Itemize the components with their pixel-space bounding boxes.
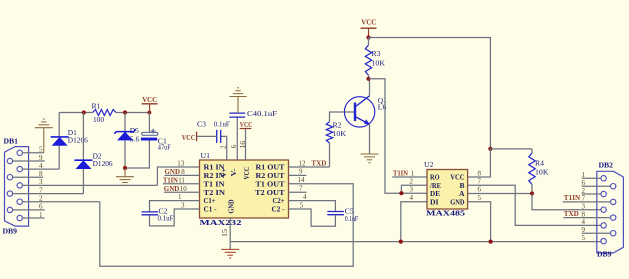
svg-text:15: 15: [222, 228, 229, 237]
op-amp U2 MAX485 body: [427, 170, 468, 210]
resistor R4: [529, 153, 535, 185]
svg-text:5: 5: [300, 201, 304, 209]
DB1 pin 1 circle: [17, 215, 22, 220]
svg-text:C3: C3: [197, 120, 207, 128]
svg-text:GND: GND: [164, 185, 180, 193]
svg-text:R4: R4: [535, 160, 545, 168]
junction dot F: [366, 77, 370, 81]
junction dot L: [489, 240, 493, 244]
svg-text:T1IN: T1IN: [564, 194, 580, 202]
resistor R3: [365, 45, 371, 75]
wire U1 pin7: [289, 191, 307, 193]
wire U1 pin3 C1-: [150, 209, 200, 226]
svg-text:100: 100: [93, 116, 105, 124]
wire D5 bottom: [124, 140, 126, 168]
svg-text:3: 3: [181, 201, 185, 209]
svg-text:GND: GND: [228, 200, 236, 214]
svg-text:MAX485: MAX485: [426, 209, 465, 218]
wire D1 top: [58, 113, 60, 138]
svg-text:D5: D5: [130, 127, 140, 135]
resistor R1: [93, 110, 116, 116]
svg-text:GND: GND: [165, 168, 181, 176]
DB1 pin 6 circle: [7, 207, 12, 212]
svg-text:B: B: [460, 182, 465, 190]
svg-text:C2+: C2+: [273, 197, 285, 205]
svg-text:5: 5: [478, 194, 482, 202]
wire U1 pin4 C2+: [289, 201, 336, 212]
svg-text:MAX232: MAX232: [200, 218, 242, 227]
svg-text:2: 2: [410, 178, 414, 186]
connector J-DB1 outline: [5, 147, 29, 227]
svg-text:U2: U2: [424, 161, 434, 169]
svg-text:6: 6: [478, 185, 482, 193]
junction dot G: [488, 147, 492, 151]
svg-text:C1+: C1+: [204, 197, 216, 205]
wire U1 pin16 VCC: [245, 129, 247, 161]
capacitor C4: [229, 112, 245, 114]
svg-text:V+: V+: [220, 168, 228, 177]
wire DB1 pin 4: [22, 168, 59, 170]
DB2 pin 1 circle: [601, 176, 606, 181]
wire VCC to R4: [490, 148, 532, 150]
wire U2 pin5 GND: [468, 202, 491, 242]
DB2 pin 6 circle: [611, 184, 616, 189]
wire DB1 pin 7: [13, 193, 84, 195]
wire D5 top: [124, 113, 126, 132]
DB1 pin 3 circle: [17, 183, 22, 188]
resistor R2: [326, 122, 332, 143]
DB1 pin 4 circle: [17, 166, 22, 171]
svg-text:5: 5: [582, 234, 586, 242]
capacitor C2: [142, 211, 159, 213]
capacitor C3: [216, 130, 218, 143]
svg-text:TXD: TXD: [564, 210, 579, 218]
svg-text:T1 IN: T1 IN: [204, 180, 226, 188]
diode D1: [51, 136, 69, 138]
ground G1 (DB1 pin5): [35, 127, 53, 129]
wire DB2 pin 9: [582, 232, 611, 234]
svg-text:16: 16: [240, 140, 247, 149]
svg-text:1: 1: [178, 193, 182, 201]
svg-text:10: 10: [180, 185, 188, 193]
svg-text:13: 13: [177, 159, 185, 167]
svg-text:GND: GND: [450, 198, 464, 206]
ground G5 (U1 pin15): [221, 248, 239, 250]
svg-text:C40.1uF: C40.1uF: [247, 110, 277, 118]
svg-text:R2 OUT: R2 OUT: [256, 172, 285, 180]
wire U1 pin2 V+: [221, 136, 227, 160]
ground G4 (Q1): [361, 153, 379, 155]
svg-text:4: 4: [410, 194, 414, 202]
svg-text:T2 OUT: T2 OUT: [255, 189, 285, 197]
svg-text:VCC: VCC: [450, 174, 464, 182]
svg-text:0.1uF: 0.1uF: [158, 215, 174, 223]
wire U1 pin12 TXD: [289, 166, 330, 168]
wire U2 pin4 DI: [401, 202, 427, 242]
wire U2 pin7 B: [468, 185, 601, 225]
wire D2 bottom: [82, 169, 84, 194]
svg-text:VCC: VCC: [361, 19, 376, 27]
DB2 pin 2 circle: [601, 191, 606, 196]
svg-text:VCC: VCC: [142, 96, 157, 104]
DB2 pin 4 circle: [601, 223, 606, 228]
wire ground rail: [230, 241, 601, 243]
svg-text:U1: U1: [201, 152, 211, 160]
svg-text:DB1: DB1: [4, 138, 19, 146]
svg-text:VCC: VCC: [182, 133, 196, 142]
svg-text:DI: DI: [430, 198, 439, 206]
svg-text:TXD: TXD: [311, 160, 326, 168]
svg-text:R3: R3: [372, 50, 382, 58]
wire R2 bottom: [329, 143, 331, 167]
wire R4 top: [531, 149, 533, 153]
connector J-DB2 outline: [597, 171, 624, 253]
DB1 pin 5 circle: [17, 150, 22, 155]
wire U1 pin8: [165, 174, 200, 176]
wire DB1 pin 9: [13, 160, 45, 162]
wire DB2 pin8 TXD: [563, 217, 610, 219]
svg-text:5.6: 5.6: [130, 135, 140, 143]
wire DB1 pin 1: [22, 217, 44, 219]
wire DB2 pin7 T1IN: [563, 201, 611, 203]
svg-text:R1: R1: [92, 102, 102, 110]
wire U1 pin10: [164, 191, 200, 193]
wire DB2 pin 1: [582, 177, 601, 179]
ground G3 (above C4): [229, 96, 246, 98]
wire U2 pin2 RE: [401, 185, 427, 193]
wire U2 pin6 A: [468, 193, 532, 195]
svg-text:1: 1: [411, 170, 415, 178]
wire U2 pin1 RO: [392, 176, 427, 178]
svg-text:VCC: VCC: [240, 122, 253, 129]
wire R1 node left: [59, 112, 92, 114]
wire Q1 collector: [369, 79, 371, 96]
wire R3 top: [368, 38, 370, 46]
DB2 pin 9 circle: [611, 231, 616, 236]
junction dot C: [148, 111, 152, 115]
svg-text:4: 4: [582, 218, 586, 226]
wire DB1 pin 8: [13, 176, 43, 178]
capacitor C5: [327, 211, 344, 213]
wire D2 top: [82, 113, 84, 161]
wire U1 pin6 V-: [236, 117, 238, 160]
svg-text:12: 12: [299, 159, 307, 167]
ground G2 (C1/D5): [116, 176, 134, 178]
svg-text:7: 7: [299, 185, 303, 193]
svg-text:VCC: VCC: [243, 167, 251, 179]
svg-text:0.1uF: 0.1uF: [214, 120, 230, 128]
wire DB1 pin 3: [22, 184, 157, 186]
wire R4 to DB2 pin3: [532, 194, 601, 210]
op-amp U1 MAX232 body: [200, 160, 289, 218]
svg-text:RO: RO: [430, 174, 440, 182]
capacitor C1: [142, 132, 158, 135]
svg-text:DB2: DB2: [599, 161, 614, 169]
svg-text:8: 8: [478, 169, 482, 177]
zener D5: [114, 129, 135, 133]
DB2 pin 8 circle: [611, 215, 616, 220]
wire C1 top: [148, 113, 150, 133]
junction dot A: [82, 110, 86, 114]
wire DB2 pin 2: [582, 193, 601, 195]
wire D1 bottom: [58, 145, 60, 169]
wire DB1 pin 5: [22, 152, 43, 154]
svg-text:T1IN: T1IN: [393, 170, 408, 178]
svg-text:C2 -: C2 -: [272, 206, 286, 214]
wire U2 pin3 DE: [401, 192, 427, 194]
DB2 pin 5 circle: [601, 238, 606, 243]
wire DB1 pin 2: [22, 201, 99, 203]
svg-text:11: 11: [178, 177, 185, 185]
DB2 pin 7 circle: [611, 199, 616, 204]
svg-text:DB9: DB9: [3, 228, 18, 236]
svg-text:6: 6: [231, 144, 238, 148]
svg-text:DE: DE: [430, 190, 440, 198]
transistor Q1: [344, 97, 374, 127]
svg-text:R1 OUT: R1 OUT: [256, 164, 285, 172]
wire R1 right: [116, 112, 149, 114]
svg-text:D1206: D1206: [93, 160, 114, 168]
DB2 pin 3 circle: [601, 207, 606, 212]
wire R4 bottom: [531, 185, 533, 194]
wire VCC rail: [369, 38, 491, 149]
svg-text:T1IN: T1IN: [163, 177, 178, 185]
wire U1 pin15 GND: [229, 218, 231, 249]
junction dot E: [366, 35, 370, 39]
svg-text:R2: R2: [333, 121, 343, 129]
svg-text:T1 OUT: T1 OUT: [256, 180, 285, 188]
svg-text:9: 9: [299, 168, 303, 176]
DB1 pin 7 circle: [7, 191, 12, 196]
wire C1 bottom: [125, 141, 149, 169]
wire U1 pin5 C2-: [289, 209, 336, 226]
wire R2 top to base: [330, 112, 356, 122]
svg-text:C1 -: C1 -: [204, 206, 218, 214]
junction dot B: [123, 110, 127, 114]
svg-text:A: A: [459, 190, 465, 198]
wire Q1 to RE/DE: [369, 79, 402, 193]
wire R3 bottom: [368, 75, 370, 79]
svg-text:10K: 10K: [372, 60, 386, 68]
junction dot H: [399, 191, 403, 195]
svg-text:D1206: D1206: [68, 136, 89, 144]
svg-text:V-: V-: [230, 168, 238, 177]
wire DB1 pin 6: [13, 209, 45, 211]
DB1 pin 8 circle: [7, 175, 12, 180]
svg-text:DB9: DB9: [597, 251, 612, 259]
svg-text:2: 2: [221, 145, 228, 149]
svg-text:T2 IN: T2 IN: [204, 189, 226, 197]
svg-text:3: 3: [410, 185, 414, 193]
svg-text:/RE: /RE: [429, 182, 441, 190]
wire U1 pin9: [289, 174, 307, 176]
junction dot I: [530, 191, 534, 195]
svg-text:47uF: 47uF: [158, 144, 171, 152]
svg-text:3: 3: [582, 203, 586, 211]
diode D2: [74, 159, 92, 161]
junction dot K: [399, 240, 403, 244]
svg-text:7: 7: [478, 178, 482, 186]
svg-text:4: 4: [303, 193, 307, 201]
DB1 pin 2 circle: [17, 199, 22, 204]
svg-text:10K: 10K: [535, 169, 549, 177]
wire DB2 pin 6: [582, 185, 611, 187]
wire U1 pin1 C1+: [150, 201, 200, 213]
svg-text:8: 8: [181, 168, 185, 176]
junction dot D: [123, 166, 127, 170]
wire net T1OUT route: [100, 184, 353, 266]
wire U1 pin11: [163, 183, 200, 185]
svg-text:10K: 10K: [333, 130, 347, 138]
svg-text:0.1uF: 0.1uF: [345, 215, 359, 223]
wire net R1IN riser: [157, 167, 199, 185]
wire VCC to U2 pin8: [468, 149, 491, 177]
wire Q1 emitter: [369, 124, 371, 154]
DB1 pin 9 circle: [7, 158, 12, 163]
svg-text:14: 14: [298, 176, 306, 184]
